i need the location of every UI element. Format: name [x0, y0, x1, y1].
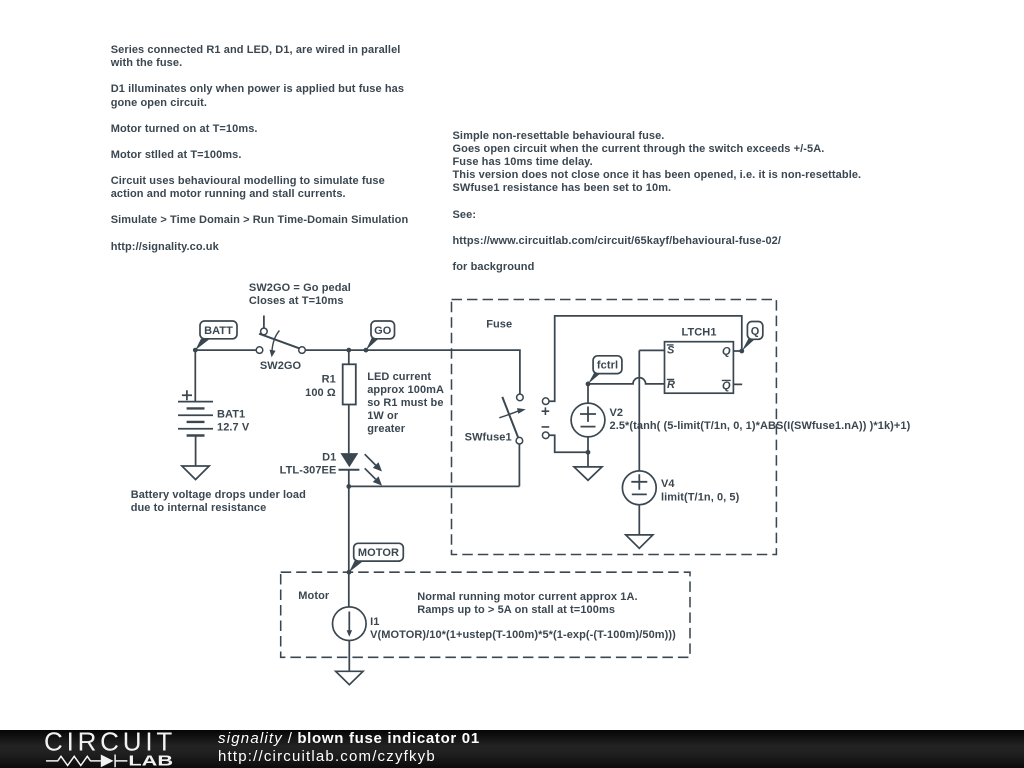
svg-text:V2: V2	[610, 407, 624, 419]
svg-text:LTL-307EE: LTL-307EE	[280, 464, 337, 476]
svg-text:S: S	[667, 345, 675, 357]
svg-text:R: R	[667, 379, 675, 391]
svg-text:MOTOR: MOTOR	[358, 547, 399, 559]
svg-text:V(MOTOR)/10*(1+ustep(T-100m)*5: V(MOTOR)/10*(1+ustep(T-100m)*5*(1-exp(-(…	[370, 629, 676, 641]
svg-text:Q: Q	[722, 345, 731, 357]
svg-text:GO: GO	[374, 325, 392, 337]
svg-text:V4: V4	[661, 478, 675, 490]
svg-text:SWfuse1: SWfuse1	[465, 432, 512, 444]
svg-text:I1: I1	[370, 616, 379, 628]
svg-text:SW2GO: SW2GO	[260, 360, 302, 372]
svg-text:LAB: LAB	[128, 752, 173, 768]
svg-text:BATT: BATT	[204, 325, 233, 337]
svg-text:D1: D1	[322, 451, 336, 463]
svg-text:Q: Q	[751, 325, 760, 337]
svg-text:Fuse: Fuse	[486, 319, 512, 331]
svg-text:Motor: Motor	[298, 590, 330, 602]
svg-text:fctrl: fctrl	[597, 360, 618, 372]
svg-text:LTCH1: LTCH1	[682, 327, 717, 339]
svg-text:100 Ω: 100 Ω	[305, 387, 336, 399]
svg-text:12.7 V: 12.7 V	[217, 421, 250, 433]
svg-text:R1: R1	[322, 374, 336, 386]
svg-text:limit(T/1n, 0, 5): limit(T/1n, 0, 5)	[661, 491, 740, 503]
svg-text:BAT1: BAT1	[217, 408, 245, 420]
svg-text:Q: Q	[722, 380, 731, 392]
svg-text:2.5*(tanh( (5-limit(T/1n, 0, 1: 2.5*(tanh( (5-limit(T/1n, 0, 1)*ABS(I(SW…	[610, 420, 911, 432]
